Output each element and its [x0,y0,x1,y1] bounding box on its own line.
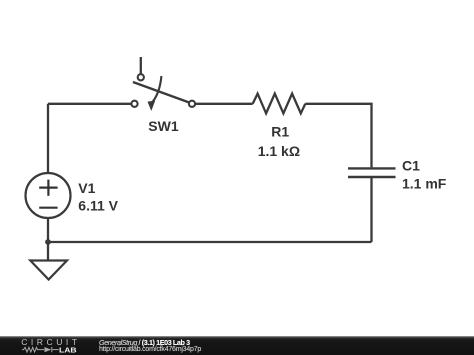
svg-text:LAB: LAB [59,348,77,355]
svg-text:6.11 V: 6.11 V [78,198,118,214]
svg-text:V1: V1 [78,180,95,196]
svg-text:CIRCUIT: CIRCUIT [21,337,80,347]
svg-text:1.1 kΩ: 1.1 kΩ [258,143,300,159]
svg-text:C1: C1 [402,158,420,174]
svg-text:SW1: SW1 [148,118,179,134]
svg-text:R1: R1 [271,124,289,140]
svg-text:1.1 mF: 1.1 mF [402,175,447,191]
